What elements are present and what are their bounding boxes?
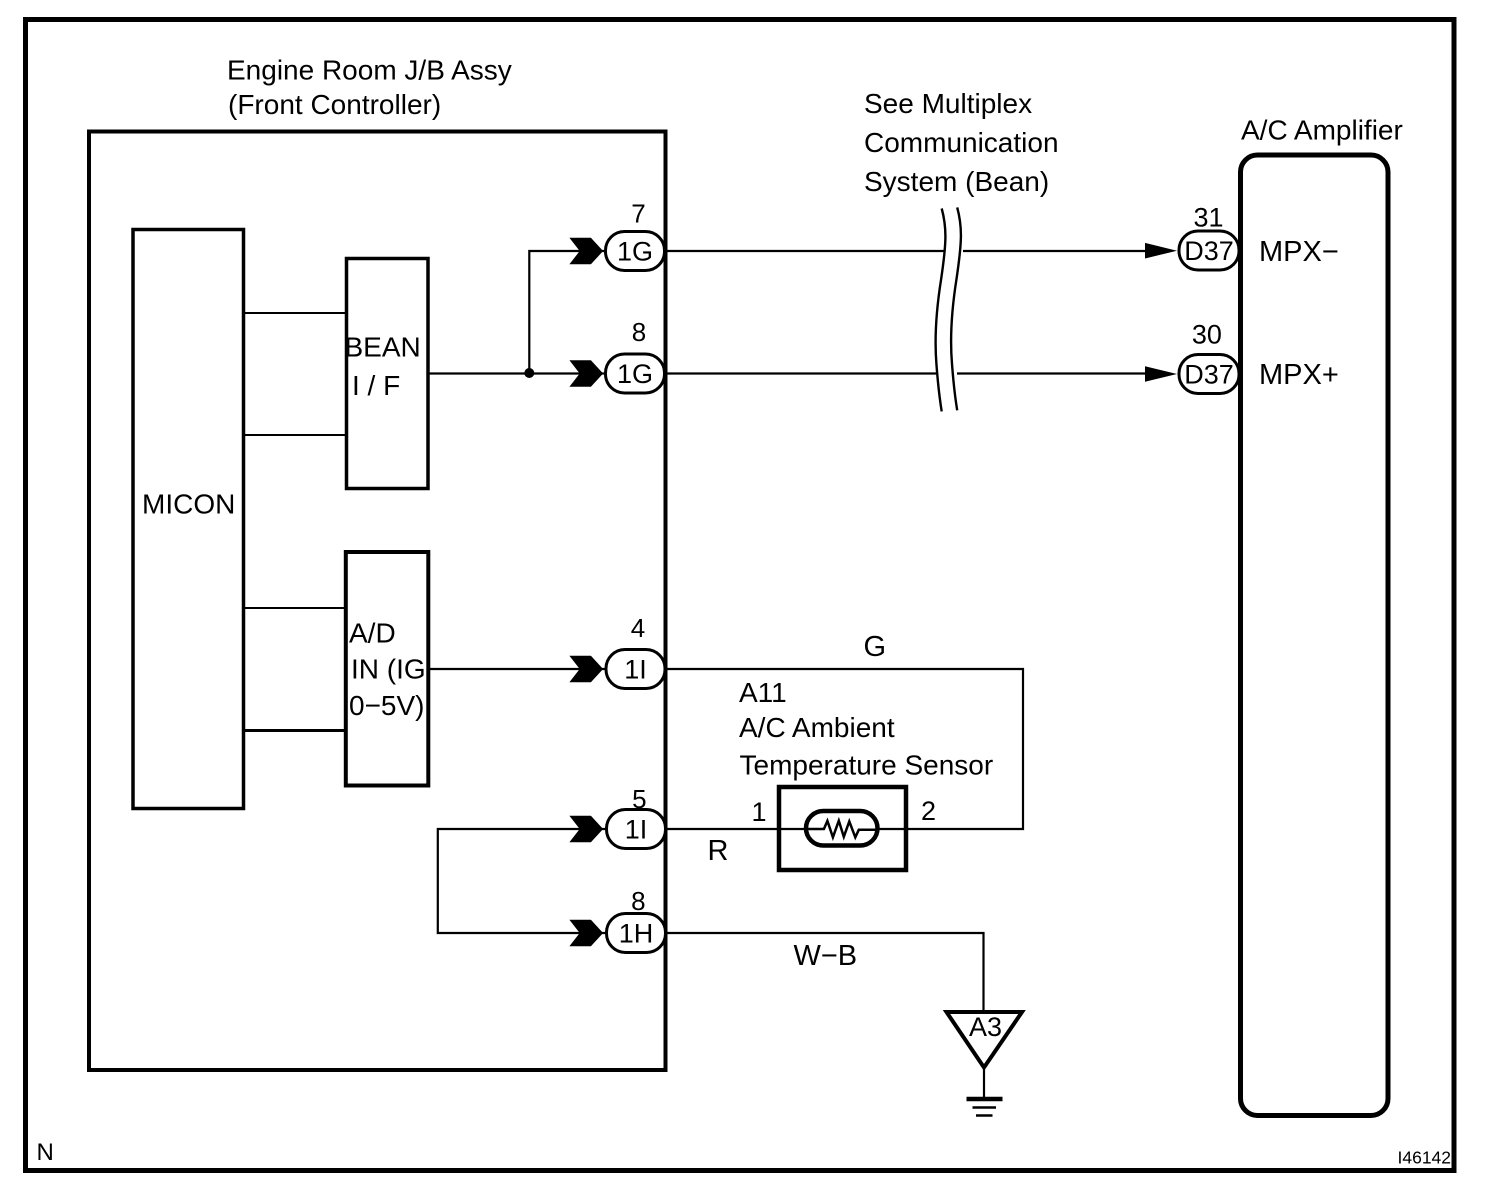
svg-text:30: 30: [1192, 320, 1222, 350]
svg-text:MICON: MICON: [142, 489, 235, 520]
wire MICON to BEAN upper: [245, 312, 346, 314]
Engine Room J/B Assy block: [89, 132, 666, 1071]
arrowhead at D37 pin 30: [1145, 366, 1177, 382]
arrow into 1H pin 8: [569, 920, 603, 947]
label: A11 A/C Ambient Temperature Sensor: [739, 677, 993, 781]
svg-text:1I: 1I: [625, 815, 648, 845]
svg-text:1G: 1G: [617, 237, 653, 267]
ground symbol: [967, 1099, 1003, 1116]
connector 1G pin 7: [606, 232, 665, 271]
svg-text:I / F: I / F: [352, 370, 400, 401]
wire junction up to connector 1G pin 7: [529, 251, 606, 373]
svg-text:7: 7: [631, 199, 645, 229]
svg-text:System (Bean): System (Bean): [864, 166, 1049, 197]
thermistor element: [806, 811, 878, 846]
svg-text:A3: A3: [969, 1012, 1002, 1042]
svg-text:W−B: W−B: [794, 940, 858, 972]
node junction on pin 8 wire: [524, 368, 534, 378]
svg-text:MPX−: MPX−: [1259, 236, 1339, 268]
arrow into 1G pin 8: [569, 360, 603, 387]
svg-text:IN (IG: IN (IG: [351, 654, 426, 685]
svg-text:N: N: [37, 1139, 54, 1166]
A/D IN block: [346, 552, 429, 786]
wire 1H pin 8 to ground (W-B): [665, 933, 984, 1012]
wire 1G pin 8 to D37 pin 30 (MPX+): [665, 372, 936, 374]
label: See Multiplex Communication System (Bean): [864, 88, 1059, 197]
wire BEAN I/F to connector 1G pin 8: [429, 372, 606, 374]
wire 1G pin 7 to D37 pin 31 (MPX-): [665, 250, 944, 252]
svg-text:G: G: [864, 631, 887, 663]
MICON block: [133, 230, 244, 809]
svg-text:I46142: I46142: [1398, 1148, 1452, 1168]
svg-text:1G: 1G: [617, 359, 653, 389]
svg-text:8: 8: [631, 886, 645, 916]
arrowhead at D37 pin 31: [1145, 243, 1177, 259]
svg-text:4: 4: [631, 613, 645, 643]
svg-text:Engine Room J/B Assy: Engine Room J/B Assy: [227, 55, 512, 86]
svg-text:0−5V): 0−5V): [349, 690, 425, 721]
wire 1I pin 4 loop to sensor pin 2 (G): [665, 669, 1023, 829]
svg-text:D37: D37: [1184, 236, 1234, 266]
svg-text:R: R: [708, 835, 729, 867]
svg-text:A/D: A/D: [349, 618, 396, 649]
connector D37 pin 31: [1179, 231, 1239, 270]
ground triangle A3: [947, 1012, 1023, 1068]
label: Engine Room J/B Assy (Front Controller): [227, 55, 512, 121]
svg-text:1H: 1H: [619, 919, 654, 949]
A/C Amplifier block: [1241, 115, 1403, 1116]
wavy break line left: [936, 209, 946, 412]
svg-text:(Front Controller): (Front Controller): [228, 89, 441, 120]
wavy break line right: [951, 207, 961, 410]
arrow into 1G pin 7: [569, 238, 603, 265]
wire MICON to BEAN lower: [245, 434, 346, 436]
sensor A11 body: [779, 787, 906, 870]
ground stem wire: [983, 1068, 985, 1098]
svg-text:Temperature Sensor: Temperature Sensor: [740, 750, 994, 781]
arrow into 1I pin 4: [569, 656, 603, 683]
wire MICON to A/D upper: [245, 607, 346, 609]
wire MICON to A/D lower: [245, 729, 346, 732]
svg-text:See Multiplex: See Multiplex: [864, 88, 1032, 119]
connector 1I pin 4: [606, 650, 665, 689]
connector 1I pin 5: [607, 810, 666, 849]
svg-text:2: 2: [921, 796, 936, 826]
wire through sensor: [779, 828, 906, 830]
svg-text:A/C Ambient: A/C Ambient: [739, 712, 895, 743]
svg-text:A11: A11: [739, 677, 787, 708]
svg-text:1I: 1I: [624, 655, 647, 685]
svg-text:BEAN: BEAN: [345, 332, 421, 363]
svg-text:1: 1: [752, 797, 767, 827]
connector 1H pin 8: [607, 914, 666, 953]
wire loop joining connector 1I pin 5 and connector 1H pin 8: [438, 829, 606, 933]
svg-text:A/C Amplifier: A/C Amplifier: [1241, 115, 1403, 146]
connector 1G pin 8: [606, 354, 665, 393]
svg-text:8: 8: [632, 317, 646, 347]
connector D37 pin 30: [1179, 355, 1239, 394]
svg-text:Communication: Communication: [864, 127, 1059, 158]
svg-text:MPX+: MPX+: [1259, 359, 1339, 391]
wire 1I pin 5 to sensor pin 1 (R): [665, 828, 908, 830]
BEAN I/F block: [345, 259, 429, 489]
svg-text:31: 31: [1193, 203, 1223, 233]
svg-text:5: 5: [632, 784, 646, 814]
wire A/D to connector 1I pin 4: [430, 668, 606, 670]
arrow into 1I pin 5: [569, 816, 603, 843]
svg-text:D37: D37: [1184, 360, 1234, 390]
